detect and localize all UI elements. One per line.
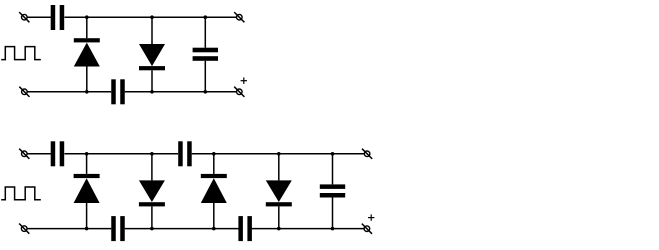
node dot: D4 top — [150, 152, 154, 156]
wire: T5 to C4 — [27, 153, 51, 155]
wire: bottom rail C6 to C7 — [125, 228, 239, 230]
square-wave source symbol (top circuit) — [1, 47, 41, 60]
capacitor C8 (output, shunt) — [320, 154, 345, 229]
node dot: D5 bottom — [212, 227, 216, 231]
node dot: C3 bottom — [204, 90, 208, 94]
diode D4 (cathode down) — [139, 154, 165, 229]
capacitor C1 (series, top rail) — [51, 5, 64, 30]
terminal T5 (top-left input) — [19, 149, 29, 159]
capacitor C2 (series, bottom rail) — [111, 79, 125, 104]
wire: T3 to C2 — [28, 91, 112, 93]
terminal T8 (bottom-right, + output) — [362, 224, 372, 234]
diode D6 (cathode down) — [266, 154, 292, 229]
node dot: D2 bottom — [150, 90, 154, 94]
node dot: C8 top — [331, 152, 335, 156]
node dot: C8 bottom — [331, 227, 335, 231]
capacitor C3 (output, shunt) — [193, 17, 218, 92]
diode D3 (cathode up) — [74, 154, 100, 229]
node dot: D5 top — [212, 152, 216, 156]
wire: T7 to C6 — [27, 228, 111, 230]
node dot: D6 bottom — [277, 227, 281, 231]
capacitor C4 (series, top rail left) — [51, 141, 64, 166]
node dot: D4 bottom — [150, 227, 154, 231]
plus label (bottom circuit output polarity) — [368, 214, 374, 220]
node dot: D1 bottom — [85, 90, 89, 94]
wire: top rail C5 to T6 — [192, 153, 364, 155]
node dot: D3 bottom — [85, 227, 89, 231]
terminal T7 (bottom-left input) — [19, 224, 29, 234]
terminal T2 (top-right) — [234, 12, 244, 22]
wire: bottom rail C2 to T4 — [125, 91, 237, 93]
node dot: C3 top — [204, 15, 208, 19]
terminal T4 (bottom-right, + output) — [234, 87, 244, 97]
node dot: D2 top — [150, 15, 154, 19]
node dot: D1 top — [85, 15, 89, 19]
diode D1 (cathode up) — [74, 17, 100, 92]
capacitor C6 (series, bottom rail left) — [111, 216, 125, 241]
wire: top rail C4 to C5 — [65, 153, 179, 155]
wire: T1 to C1 — [27, 16, 51, 18]
square-wave source symbol (bottom circuit) — [1, 187, 41, 200]
node dot: D6 top — [277, 152, 281, 156]
terminal T3 (bottom-left input) — [19, 87, 29, 97]
terminal T1 (top-left input) — [19, 12, 29, 22]
node dot: D3 top — [85, 152, 89, 156]
wire: bottom rail C7 to T8 — [252, 228, 364, 230]
diode D5 (cathode up) — [201, 154, 227, 229]
diode D2 (cathode down) — [139, 17, 165, 92]
wire: top rail C1 to T2 — [65, 16, 237, 18]
plus label (top circuit output polarity) — [241, 78, 247, 84]
terminal T6 (top-right) — [362, 149, 372, 159]
capacitor C7 (series, bottom rail right) — [238, 216, 252, 241]
capacitor C5 (series, top rail right) — [178, 141, 192, 166]
